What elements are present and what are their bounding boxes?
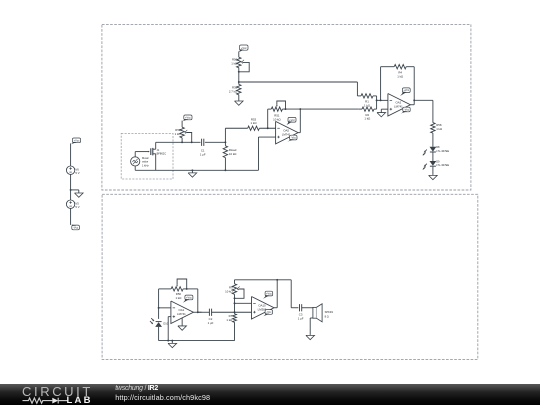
node bias junction bbox=[238, 81, 240, 83]
capacitor C3 1uF bbox=[298, 304, 304, 320]
node bbox=[238, 71, 240, 73]
wire bbox=[168, 317, 171, 341]
wire bbox=[310, 318, 313, 335]
wire bbox=[291, 280, 298, 308]
wire (bias net to stage 2) bbox=[239, 82, 358, 96]
wire bbox=[432, 133, 434, 147]
ground (OA2 +input) bbox=[377, 109, 386, 117]
ground (speaker) bbox=[306, 335, 315, 340]
power flag +Vcc (OA2) bbox=[400, 88, 410, 96]
node OA5 inverting junction bbox=[267, 127, 269, 129]
logo resistor-diode symbol bbox=[23, 398, 69, 404]
dashed enclosure box (transmitter block) bbox=[102, 24, 471, 190]
wire bbox=[224, 142, 226, 170]
node OA1 inverting junction bbox=[158, 307, 160, 309]
wire bbox=[181, 121, 183, 128]
dashed enclosure box (receiver block) bbox=[102, 194, 478, 359]
node bbox=[380, 99, 382, 101]
wire bbox=[159, 288, 172, 290]
wire bbox=[70, 143, 72, 166]
node bbox=[234, 297, 236, 299]
wire bbox=[155, 154, 157, 171]
wire bbox=[181, 138, 183, 143]
wire bbox=[414, 100, 433, 122]
wire (pot wiper loop) bbox=[235, 289, 245, 298]
wire (drain rail) bbox=[156, 141, 201, 143]
CircuitLab logo bbox=[22, 385, 93, 398]
node OA5 output junction bbox=[299, 108, 301, 110]
wire bbox=[302, 307, 313, 309]
wire bbox=[359, 108, 377, 110]
wire bbox=[238, 68, 240, 82]
footer bar bbox=[0, 384, 540, 406]
node bbox=[276, 279, 278, 281]
capacitor C1 1uF bbox=[200, 139, 206, 157]
wire bbox=[235, 311, 252, 313]
power flag +Vcc (OA5) bbox=[287, 117, 296, 125]
node bbox=[186, 288, 188, 290]
wire bbox=[432, 153, 434, 162]
wire bbox=[71, 189, 79, 191]
capacitor C2 1uF bbox=[208, 309, 214, 325]
wire bbox=[432, 167, 434, 175]
wire (pot wiper loop) bbox=[186, 133, 191, 143]
wire bbox=[234, 294, 236, 314]
power flag -Vcc (OA3) bbox=[263, 310, 272, 317]
resistor R1 1k bbox=[361, 94, 373, 108]
wire bbox=[70, 190, 72, 200]
wire bbox=[70, 208, 72, 225]
resistor Rload 10k bbox=[223, 146, 237, 158]
wire bbox=[357, 95, 376, 97]
wire (mic bottom rail) bbox=[135, 169, 258, 171]
power flag -Vcc (supply) bbox=[71, 224, 80, 230]
potentiometer R52 1k bbox=[175, 127, 188, 138]
op-amp OA2 LM741 bbox=[388, 94, 411, 117]
wire bbox=[238, 82, 240, 101]
node OA2 output junction bbox=[413, 99, 415, 101]
wire bbox=[155, 142, 157, 149]
node bbox=[224, 169, 226, 171]
op-amp OA5 LM741 bbox=[276, 121, 299, 143]
wire bbox=[268, 109, 272, 128]
wire bbox=[159, 307, 171, 309]
wire (pot wiper loop) bbox=[277, 101, 286, 109]
node C1/Rload junction bbox=[224, 141, 226, 143]
wire bbox=[135, 151, 150, 157]
wire bbox=[298, 109, 300, 133]
wire bbox=[198, 311, 235, 313]
url bbox=[115, 394, 210, 401]
voltage source V5 bbox=[66, 200, 79, 209]
node OA2 inverting junction bbox=[376, 99, 378, 101]
wire bbox=[238, 51, 240, 57]
node bbox=[181, 141, 192, 143]
wire bbox=[259, 127, 275, 129]
power flag -Vcc (OA2) bbox=[401, 107, 411, 113]
node bbox=[171, 340, 173, 342]
wire bbox=[134, 166, 136, 170]
wire bbox=[225, 128, 247, 142]
resistor R58 1k bbox=[431, 123, 442, 134]
wire bbox=[381, 108, 388, 110]
power flag +Vcc (OA1) bbox=[183, 295, 193, 303]
wire bbox=[282, 108, 300, 110]
wire bbox=[205, 141, 226, 143]
wire (pot wiper loop) bbox=[177, 279, 187, 289]
wire (stage1 to stage2) bbox=[300, 108, 359, 110]
wire bbox=[376, 96, 378, 109]
node supply mid junction bbox=[70, 189, 72, 191]
wire bbox=[259, 137, 276, 170]
potentiometer R56 1k (feedback) bbox=[171, 284, 183, 301]
wire (feedback top rail) bbox=[235, 279, 292, 281]
ground (LED chain) bbox=[429, 175, 438, 180]
signal source V7 (music 1 kHz) bbox=[131, 156, 150, 168]
speaker SP1 8ohm bbox=[313, 304, 334, 322]
node bbox=[167, 340, 169, 342]
resistor R53 1k bbox=[248, 117, 260, 130]
resistor R2 1k bbox=[362, 107, 374, 121]
voltage source V6 bbox=[66, 166, 79, 175]
wire bbox=[235, 302, 252, 304]
wire bbox=[70, 174, 72, 190]
title: twschung / IR2 bbox=[115, 385, 158, 392]
ground bbox=[75, 190, 84, 197]
node bbox=[234, 302, 236, 304]
op-amp OA1 LM741 bbox=[171, 301, 194, 324]
ground bbox=[235, 101, 244, 106]
LED D9 LTL-307EE bbox=[423, 159, 450, 169]
wire bbox=[158, 327, 160, 341]
potentiometer R51 10k (feedback) bbox=[271, 104, 282, 121]
ground (receiver rail) bbox=[168, 341, 177, 348]
transistor J1 (JFET) bbox=[151, 148, 166, 156]
dashed enclosure box (microphone cell) bbox=[121, 133, 173, 179]
wire bbox=[183, 289, 198, 312]
op-amp OA3 LM386 bbox=[252, 297, 275, 320]
node bbox=[285, 108, 287, 110]
wire (pot wiper loop) bbox=[239, 62, 249, 71]
ground (mic) bbox=[188, 170, 197, 177]
power flag +Vcc (bias) bbox=[239, 45, 248, 52]
power flag +Vcc (R52) bbox=[182, 115, 192, 121]
node OA1 output junction bbox=[197, 311, 199, 313]
wire bbox=[158, 289, 160, 319]
wire bbox=[234, 280, 236, 284]
resistor R7 1k bbox=[226, 314, 236, 323]
LED D8 LTL-307EE bbox=[423, 145, 450, 155]
power flag -Vcc (OA5) bbox=[287, 135, 297, 142]
wire bbox=[377, 99, 388, 101]
wire bbox=[193, 311, 201, 313]
wire bbox=[410, 100, 414, 104]
ground (OA1 V- pin) bbox=[178, 318, 187, 330]
node bbox=[191, 169, 193, 171]
wire bbox=[381, 67, 395, 101]
power flag +Vcc (supply) bbox=[71, 138, 81, 144]
potentiometer R9 10k bbox=[225, 284, 240, 295]
wire bbox=[274, 280, 277, 308]
wire bbox=[406, 67, 414, 101]
potentiometer R50 1k bbox=[231, 57, 244, 67]
resistor R38 2.7k bbox=[229, 84, 241, 94]
node bbox=[234, 311, 236, 313]
wire (receiver bottom rail) bbox=[159, 340, 235, 342]
resistor R4 1k (feedback) bbox=[394, 65, 406, 79]
power flag +Vcc (OA3) bbox=[263, 291, 273, 299]
photodiode D10 bbox=[150, 318, 169, 327]
wire bbox=[234, 322, 236, 340]
